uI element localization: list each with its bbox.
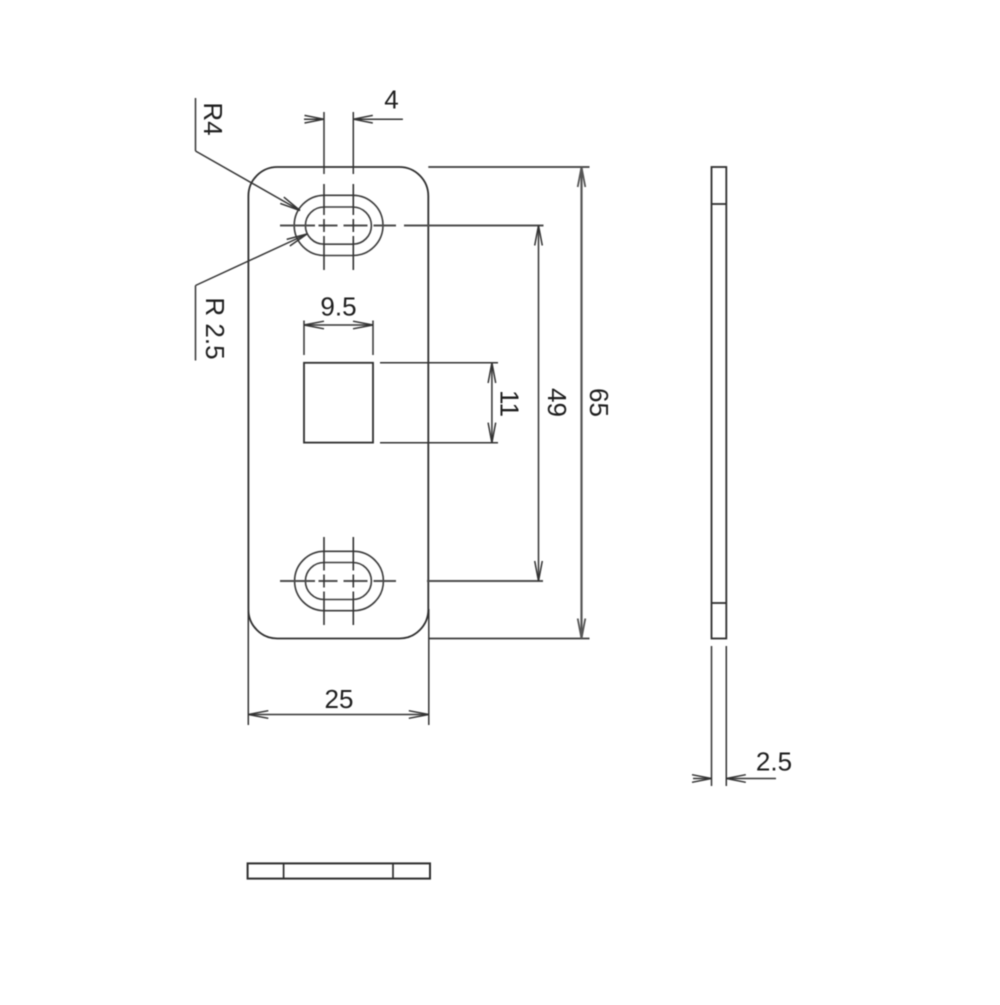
top slot horizontal centerline [280,225,544,227]
dimension 25 line [248,714,428,716]
dimension 11 extension lines [380,363,498,443]
svg-text:4: 4 [384,85,398,115]
bottom slot inner obround [305,563,371,600]
dimension 11 arrowheads [488,363,496,443]
dimension 65 extension lines [428,167,589,639]
bottom slot vertical centerline left [323,537,325,625]
dimension 4 extension lines [324,112,353,174]
dimension 49 line [538,226,540,582]
dimension 2.5 lines [693,778,776,780]
front view plate outline [248,167,428,639]
svg-text:2.5: 2.5 [756,747,792,777]
dimension 4 arrowheads [305,115,373,123]
bottom view outline [248,863,430,878]
dimension 65 line [580,167,582,639]
top slot inner obround [305,207,371,244]
leader R4 line [196,151,301,211]
dimension 65 arrowheads [578,167,586,639]
dimension 49 arrowheads [535,226,543,582]
dimension 2.5 arrowheads [692,775,746,783]
bottom slot outer obround [295,551,384,610]
svg-text:49: 49 [542,388,572,417]
bottom slot horizontal centerline [280,580,543,582]
svg-text:R 2.5: R 2.5 [200,297,230,359]
bottom slot vertical centerline right [352,537,354,625]
leader R2.5 underline [195,286,197,361]
top slot vertical centerline left [323,184,325,270]
dimension 11 line [491,363,493,443]
top slot vertical centerline right [352,184,354,270]
square hole [304,363,373,443]
dimension 4 lines [304,118,403,120]
dimension 25 arrowheads [248,711,428,719]
leader R2.5 line [196,234,308,286]
dimension 9.5 arrowheads [304,321,373,329]
leader R4 arrowhead [280,197,300,210]
svg-text:65: 65 [584,388,614,417]
svg-text:R4: R4 [198,102,228,135]
side view upper division line [712,203,727,205]
dimension 2.5 extension lines [712,646,727,786]
side view outline [712,167,727,639]
svg-text:25: 25 [325,684,354,714]
leader R2.5 arrowhead [287,234,307,246]
top slot outer obround [294,195,383,255]
dimension 25 extension lines [248,609,428,725]
dimension 9.5 extension lines [304,321,373,356]
svg-text:9.5: 9.5 [320,292,356,322]
svg-text:11: 11 [495,390,525,417]
side view lower division line [712,602,727,604]
bottom view right division line [392,863,394,878]
leader R4 underline [195,98,197,151]
dimension 9.5 line [304,324,373,326]
bottom view left division line [283,863,285,878]
